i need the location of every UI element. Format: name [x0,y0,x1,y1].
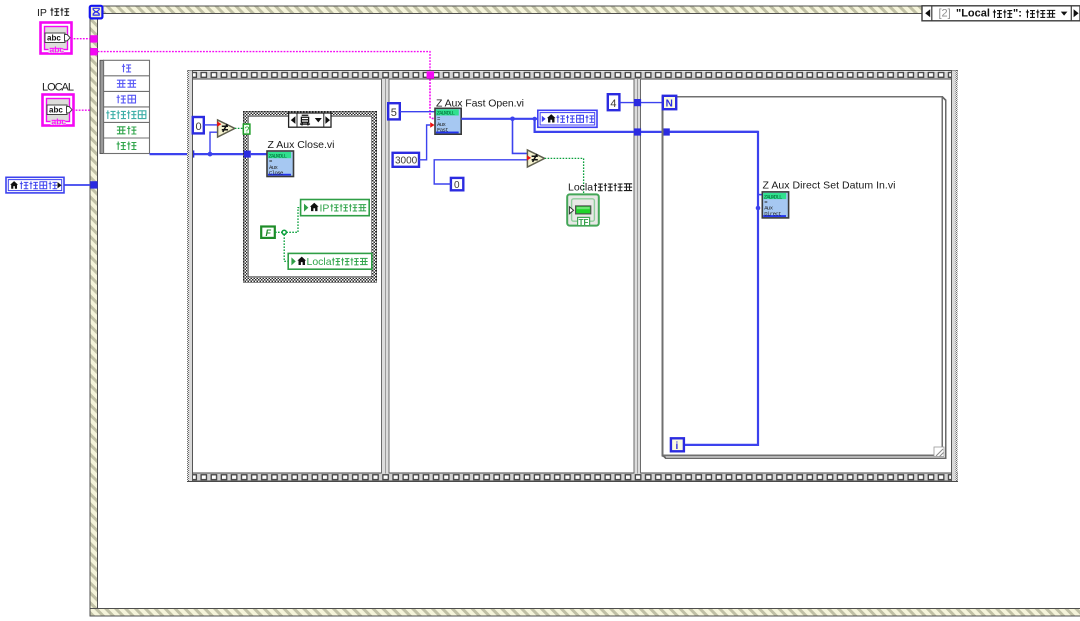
numeric constant 0 (frame2) [451,178,463,191]
wire comparator to case selector (green dashed) [235,127,243,129]
svg-text:Z Aux Close.vi: Z Aux Close.vi [268,139,335,151]
wire 0 to comparator [204,124,218,126]
wire 5 to Z Aux Fast Open.vi [400,111,435,113]
svg-text:0: 0 [454,180,460,191]
svg-text:"Local: "Local [956,8,990,20]
tunnel magenta on sequence top border [427,71,434,78]
tunnel on for loop border (blue) [663,128,670,135]
tunnel 4 on separator2 [634,99,641,106]
event case selector label "[2] Local链接: 值改变" [922,6,1080,21]
numeric constant 0 (frame1) [193,117,204,133]
numeric constant 5 [388,103,400,119]
numeric constant 4 [608,94,620,110]
case selector label 真 [289,113,331,127]
wire Local string into sequence (magenta dashed) [98,52,430,71]
svg-text:abc: abc [47,34,61,43]
svg-text:Locla: Locla [307,256,332,268]
string control LOCAL [43,95,74,127]
svg-text:?: ? [245,124,250,134]
not-equal comparator 2 [527,150,544,167]
wire 新值 to sequence/case [150,153,244,155]
property node IP链接状态 [301,200,370,216]
svg-text:abc: abc [49,106,63,115]
svg-text:IP: IP [320,203,330,215]
svg-text:Locla: Locla [568,181,593,193]
tunnel on sequence border (blue) [187,150,194,157]
tunnel IP地址 (magenta) [90,35,97,42]
local variable 链接句柄 [6,177,64,193]
subVI Z Aux Close.vi [267,151,294,177]
event structure timeout terminal [90,6,103,19]
svg-text:Fast: Fast [437,127,448,134]
svg-text:4: 4 [610,98,616,110]
svg-text:TF: TF [579,218,589,227]
tunnel into case (blue) [244,151,251,158]
tunnel 链接句柄 (blue) [90,181,97,188]
svg-text:abc: abc [50,44,65,54]
wire 链接句柄 to event tunnel [64,184,90,186]
sequence frame separator 2 [634,79,641,474]
boolean indicator Locla链接状态 [567,194,599,226]
numeric constant 3000 [393,153,419,167]
svg-text:Z Aux Direct Set Datum In.vi: Z Aux Direct Set Datum In.vi [763,180,896,192]
string control IP地址 [41,23,72,55]
svg-text:F: F [266,228,272,238]
svg-text:i: i [676,441,679,452]
event data node [100,60,150,153]
loop iteration terminal i [671,438,684,452]
svg-text:[2]: [2] [939,8,951,20]
wire 3000 to Z Aux Fast Open.vi [419,125,430,160]
tunnel LOCAL (magenta) [90,48,97,55]
wire IP地址 to event tunnel (magenta dashed) [71,38,91,40]
wire branch up to comparator [210,132,218,154]
coercion arrow red fast open [430,122,434,127]
wire 0 to comparator2 [434,160,527,184]
svg-text:3000: 3000 [395,156,418,167]
svg-text:":: ": [1013,8,1022,20]
flat sequence structure border [187,71,958,482]
svg-text:5: 5 [391,107,397,119]
subVI Z Aux Direct Set Datum In.vi [762,192,788,218]
loop count terminal N [663,96,676,110]
coercion arrow red [217,121,221,126]
stub to subVI pin [758,194,762,196]
junction dot 2 [533,117,537,121]
wire down to comparator2 [513,119,528,154]
junction dot on loop wire [756,206,761,211]
not-equal comparator (frame1) [218,120,235,137]
wire handle to for loop [535,119,758,132]
label Locla链接状态 indicator [568,181,632,193]
svg-text:0: 0 [196,121,202,133]
wire Fast Open output to 链接句柄 property [461,118,538,120]
sequence frame separator 1 [381,79,389,474]
wire F to property nodes (green dashed) [275,231,282,233]
subVI Z Aux Fast Open.vi [435,108,461,134]
for loop border [662,97,945,458]
boolean constant F [261,227,275,238]
svg-text:Close: Close [269,169,283,176]
svg-text:N: N [666,98,673,109]
case selector terminal ? [243,124,250,134]
for loop resize handle [934,447,944,457]
property node 链接句柄 [538,110,597,127]
svg-text:LOCAL: LOCAL [42,82,74,94]
wire comparator2 to indicator (green dashed) [545,158,584,194]
wire inside loop to subVI and i [670,132,758,445]
tunnel on separator2 (blue) [634,128,641,135]
property node Locla链接状态 [288,253,372,269]
svg-text:IP: IP [37,7,47,19]
case structure border [244,111,377,281]
wire junction [208,152,213,157]
coercion arrow red comparator2 [527,155,531,160]
wire tunnel to Z Aux Close.vi [251,153,267,155]
svg-text:Direct: Direct [764,210,781,217]
string control IP地址 label [37,7,69,19]
junction dot 1 [510,117,515,122]
wire 4 to N [619,102,662,104]
svg-text:abc: abc [52,116,67,126]
wire LOCAL to event border (magenta dashed) [73,109,91,111]
